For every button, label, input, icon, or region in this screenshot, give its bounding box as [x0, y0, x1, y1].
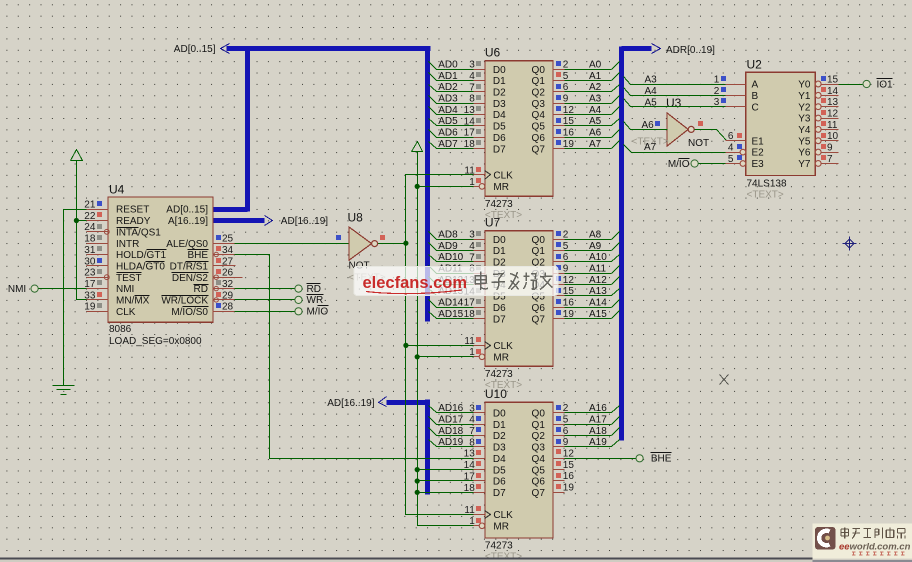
wire U10 Q3 (pin 9) to A19	[553, 437, 620, 448]
svg-text:34: 34	[222, 245, 234, 256]
wire U6 Q1 (pin 5) to A1	[553, 71, 620, 82]
wire AD6 to U6 D6 (pin 17)	[429, 128, 485, 139]
decoder U2 74LS138	[740, 57, 815, 200]
svg-text:AD1: AD1	[438, 71, 458, 82]
svg-text:1: 1	[469, 347, 475, 358]
svg-text:A11: A11	[589, 263, 606, 274]
junction MR net at U10 D6	[415, 478, 420, 483]
svg-text:Q7: Q7	[532, 488, 546, 499]
svg-text:17: 17	[464, 128, 476, 139]
processor U4 8086	[108, 183, 213, 347]
bus A[16..19] stub from U4 with right arrow	[213, 216, 273, 226]
svg-text:33: 33	[84, 290, 96, 301]
wire WR to terminal	[213, 299, 295, 301]
wire AD17 to U10 D1 (pin 4)	[429, 414, 485, 425]
power symbol VCC (left, feeds READY and MN/MX)	[71, 150, 83, 161]
wire U7 Q0 (pin 2) to A8	[553, 229, 620, 240]
svg-text:Y7: Y7	[798, 159, 811, 170]
junction MR net at U6 MR	[415, 184, 420, 189]
svg-text:7: 7	[469, 426, 475, 437]
svg-text:18: 18	[464, 139, 476, 150]
svg-text:Q1: Q1	[532, 420, 546, 431]
svg-text:Y4: Y4	[798, 125, 811, 136]
svg-text:A8: A8	[589, 229, 602, 240]
svg-text:D4: D4	[493, 454, 506, 465]
svg-text:Q4: Q4	[532, 110, 546, 121]
svg-text:E2: E2	[752, 148, 765, 159]
wire AD3 to U6 D3 (pin 8)	[429, 93, 485, 104]
svg-text:DEN/S2: DEN/S2	[172, 273, 209, 284]
svg-text:7: 7	[469, 82, 475, 93]
wire U10 Q2 (pin 6) to A18	[553, 426, 620, 437]
svg-text:6: 6	[563, 82, 569, 93]
svg-text:14: 14	[464, 116, 476, 127]
svg-text:U2: U2	[747, 57, 763, 71]
svg-text:CLK: CLK	[493, 510, 513, 521]
svg-text:16: 16	[563, 298, 575, 309]
svg-text:A16: A16	[589, 403, 607, 414]
bus AD[0..15] (top horizontal + vertical drops)	[213, 44, 431, 322]
svg-text:19: 19	[84, 302, 96, 313]
wire U7 Q7 (pin 19) to A15	[553, 309, 620, 320]
svg-text:Q2: Q2	[532, 88, 546, 99]
svg-text:Y6: Y6	[798, 148, 811, 159]
wire AD0 to U6 D0 (pin 3)	[429, 59, 485, 70]
svg-text:7: 7	[827, 154, 833, 165]
svg-text:IO1: IO1	[877, 79, 894, 90]
svg-text:A14: A14	[589, 298, 607, 309]
svg-text:BHE: BHE	[651, 454, 672, 465]
svg-text:30: 30	[84, 256, 96, 267]
wire U7 Q4 (pin 12) to A12	[553, 275, 620, 286]
svg-text:U6: U6	[485, 46, 501, 60]
svg-text:CLK: CLK	[116, 307, 136, 318]
svg-text:A5: A5	[589, 116, 602, 127]
svg-text:2: 2	[563, 59, 569, 70]
svg-text:12: 12	[563, 105, 575, 116]
svg-text:AD9: AD9	[438, 241, 458, 252]
svg-text:INTA/QS1: INTA/QS1	[116, 227, 161, 238]
wire U10 Q4 (pin 12) to BHE terminal	[553, 449, 637, 460]
svg-text:ALE/QS0: ALE/QS0	[166, 239, 208, 250]
svg-text:A17: A17	[589, 414, 607, 425]
svg-text:74273: 74273	[485, 369, 513, 380]
svg-text:D5: D5	[493, 465, 506, 476]
svg-text:D7: D7	[493, 488, 506, 499]
wire U2 Y0 to IO1 terminal	[839, 84, 863, 86]
svg-text:WR/LOCK: WR/LOCK	[161, 296, 208, 307]
svg-text:3: 3	[469, 403, 475, 414]
svg-text:Q1: Q1	[532, 246, 546, 257]
svg-text:A9: A9	[589, 241, 602, 252]
wire AD19 to U10 D3 (pin 8)	[429, 437, 485, 448]
svg-text:5: 5	[563, 71, 569, 82]
svg-text:D3: D3	[493, 99, 506, 110]
svg-text:D6: D6	[493, 303, 506, 314]
latch U10 74273	[464, 387, 553, 562]
svg-text:Q7: Q7	[532, 314, 546, 325]
U2 E1,E2,E3 pin numbers	[726, 131, 746, 165]
svg-text:MR: MR	[493, 352, 509, 363]
terminal BHE	[636, 453, 672, 465]
wire AD16 to U10 D0 (pin 3)	[429, 403, 485, 414]
junction CLK net at U7 CLK	[403, 343, 408, 348]
bus AD[16..19] (lower, feeding U10)	[379, 397, 428, 495]
wire AD18 to U10 D2 (pin 7)	[429, 426, 485, 437]
bottom window edge	[0, 557, 912, 562]
wire AD11 to U7 D3 (pin 8)	[429, 263, 485, 274]
svg-text:D4: D4	[493, 110, 506, 121]
wire ALE/QS0 to U8 input	[213, 243, 350, 245]
svg-text:17: 17	[464, 471, 476, 482]
svg-text:READY: READY	[116, 216, 151, 227]
svg-text:31: 31	[84, 245, 96, 256]
svg-text:CLK: CLK	[493, 171, 513, 182]
svg-text:Y2: Y2	[798, 102, 811, 113]
svg-text:AD19: AD19	[438, 437, 463, 448]
power symbol VCC (MR net)	[412, 142, 423, 152]
svg-text:A[16..19]: A[16..19]	[168, 216, 208, 227]
svg-text:CLK: CLK	[493, 341, 513, 352]
wire CLK net vertical (U6/U7/U10 CLK)	[406, 175, 485, 515]
terminal RD	[295, 284, 321, 295]
terminal WR	[295, 295, 324, 307]
svg-text:A18: A18	[589, 426, 607, 437]
svg-text:AD14: AD14	[438, 298, 463, 309]
svg-text:Y5: Y5	[798, 136, 811, 147]
svg-text:Q2: Q2	[532, 431, 546, 442]
watermark elecfans.com	[354, 266, 558, 295]
U4 right pins with numbers	[213, 234, 243, 313]
svg-text:13: 13	[827, 97, 839, 108]
U2 Y0-Y7 output pins	[815, 74, 838, 166]
svg-text:<TEXT>: <TEXT>	[747, 190, 784, 201]
svg-text:Y3: Y3	[798, 114, 811, 125]
wire U6 Q6 (pin 16) to A6	[553, 128, 620, 139]
svg-text:3: 3	[714, 97, 720, 108]
svg-text:D6: D6	[493, 477, 506, 488]
svg-text:4: 4	[728, 143, 734, 154]
svg-text:15: 15	[563, 460, 575, 471]
svg-text:E1: E1	[752, 136, 765, 147]
svg-text:6: 6	[728, 131, 734, 142]
wire A7 from bus to U2 E2	[624, 142, 741, 153]
svg-text:A19: A19	[589, 437, 607, 448]
svg-text:12: 12	[827, 108, 839, 119]
svg-text:A7: A7	[644, 142, 657, 153]
wire U6 Q2 (pin 6) to A2	[553, 82, 620, 93]
svg-text:MR: MR	[493, 521, 509, 532]
svg-text:Q0: Q0	[532, 235, 546, 246]
svg-text:19: 19	[563, 483, 575, 494]
svg-text:A6: A6	[589, 128, 602, 139]
svg-text:Q7: Q7	[532, 144, 546, 155]
inverter U8 (NOT) on ALE	[336, 211, 386, 284]
svg-text:Q6: Q6	[532, 133, 546, 144]
svg-text:RESET: RESET	[116, 205, 149, 216]
svg-text:Y0: Y0	[798, 80, 811, 91]
svg-text:M/IO: M/IO	[668, 159, 690, 170]
svg-text:AD[16..19]: AD[16..19]	[281, 216, 328, 227]
svg-text:B: B	[752, 91, 759, 102]
svg-text:D2: D2	[493, 431, 506, 442]
wire A6 from bus to U3 input	[624, 120, 668, 131]
svg-text:MN/MX: MN/MX	[116, 296, 150, 307]
svg-text:MR: MR	[493, 182, 509, 193]
svg-text:1: 1	[469, 516, 475, 527]
svg-text:NOT: NOT	[688, 138, 709, 149]
wire U3 output to U2 E1	[695, 121, 746, 141]
bus ADR[0..19] (right vertical with top arrow)	[622, 44, 661, 441]
svg-text:Q3: Q3	[532, 443, 546, 454]
svg-text:8086: 8086	[109, 324, 132, 335]
svg-text:A15: A15	[589, 309, 607, 320]
U10 D4-D7 pins (13,14,17,18)	[464, 449, 485, 494]
marker X (no-connect cross)	[720, 375, 729, 385]
svg-text:17: 17	[84, 279, 96, 290]
svg-text:D7: D7	[493, 314, 506, 325]
junction CLK net at U8 output	[403, 241, 408, 246]
svg-text:TEST: TEST	[116, 273, 142, 284]
svg-text:A: A	[752, 80, 759, 91]
svg-text:3: 3	[469, 230, 475, 241]
wire U6 Q3 (pin 9) to A3	[553, 93, 620, 104]
svg-text:D3: D3	[493, 443, 506, 454]
svg-text:Y1: Y1	[798, 91, 811, 102]
svg-text:U10: U10	[485, 387, 507, 401]
svg-text:5: 5	[563, 414, 569, 425]
svg-text:INTR: INTR	[116, 239, 139, 250]
wire M/IO to terminal	[213, 311, 295, 313]
svg-text:9: 9	[827, 143, 833, 154]
svg-text:A2: A2	[589, 82, 602, 93]
svg-text:15: 15	[563, 116, 575, 127]
svg-text:6: 6	[563, 426, 569, 437]
svg-text:Q1: Q1	[532, 76, 546, 87]
svg-text:16: 16	[563, 128, 575, 139]
svg-text:AD4: AD4	[438, 105, 458, 116]
svg-text:10: 10	[827, 131, 839, 142]
svg-text:9: 9	[563, 263, 569, 274]
wire U6 Q5 (pin 15) to A5	[553, 116, 620, 127]
svg-text:WR: WR	[307, 295, 324, 306]
svg-text:74273: 74273	[485, 199, 513, 210]
junction MR net at U7 MR	[415, 354, 420, 359]
svg-text:.com.cn: .com.cn	[875, 542, 911, 553]
wire RESET to ground net	[64, 210, 87, 386]
svg-text:11: 11	[464, 336, 475, 347]
svg-text:LOAD_SEG=0x0800: LOAD_SEG=0x0800	[109, 336, 202, 347]
svg-text:15: 15	[827, 74, 839, 85]
svg-text:D5: D5	[493, 122, 506, 133]
svg-text:16: 16	[563, 471, 575, 482]
svg-text:A4: A4	[589, 105, 602, 116]
svg-text:14: 14	[464, 460, 476, 471]
svg-text:8: 8	[469, 94, 475, 105]
svg-text:world: world	[850, 542, 876, 553]
terminal IO1	[863, 79, 893, 91]
svg-text:A12: A12	[589, 275, 607, 286]
svg-text:NMI: NMI	[116, 284, 134, 295]
wire U7 Q2 (pin 6) to A10	[553, 252, 620, 263]
wire AD5 to U6 D5 (pin 14)	[429, 116, 485, 127]
junction READY/VCC	[74, 218, 79, 223]
wire AD7 to U6 D7 (pin 18)	[429, 139, 485, 150]
svg-text:25: 25	[222, 234, 234, 245]
svg-text:BHE: BHE	[187, 250, 208, 261]
svg-text:AD5: AD5	[438, 116, 458, 127]
U4 left pins with numbers	[84, 200, 109, 313]
svg-text:AD[0..15]: AD[0..15]	[174, 44, 216, 55]
terminal M/IO	[295, 306, 329, 318]
svg-text:12: 12	[563, 275, 575, 286]
svg-text:D0: D0	[493, 65, 506, 76]
svg-text:13: 13	[464, 105, 476, 116]
svg-text:11: 11	[827, 120, 838, 131]
svg-text:26: 26	[222, 268, 234, 279]
U10 Q5-Q7 unconnected pins (15,16,19)	[553, 460, 575, 494]
svg-text:AD[16..19]: AD[16..19]	[327, 398, 374, 409]
wire U8 output to CLK net	[378, 243, 406, 245]
svg-text:74LS138: 74LS138	[747, 178, 787, 189]
svg-text:U7: U7	[485, 216, 501, 230]
svg-text:1: 1	[714, 74, 720, 85]
wire U10 Q0 (pin 2) to A16	[553, 403, 620, 414]
svg-text:11: 11	[464, 505, 475, 516]
wires A3,A4,A5 from bus to U2 A,B,C (pins 1,2,3)	[624, 74, 746, 108]
wire U6 Q4 (pin 12) to A4	[553, 105, 620, 116]
svg-text:M/IO/S0: M/IO/S0	[171, 307, 208, 318]
svg-text:A5: A5	[645, 97, 658, 108]
wire AD8 to U7 D0 (pin 3)	[429, 229, 485, 240]
svg-text:5: 5	[563, 241, 569, 252]
wire AD13 to U7 D5 (pin 14)	[429, 286, 485, 297]
svg-text:32: 32	[222, 279, 234, 290]
wire AD4 to U6 D4 (pin 13)	[429, 105, 485, 116]
svg-text:ADR[0..19]: ADR[0..19]	[666, 45, 715, 56]
svg-text:29: 29	[222, 290, 234, 301]
marker origin crosshair (blue)	[843, 237, 857, 251]
svg-text:HLDA/GT0: HLDA/GT0	[116, 262, 165, 273]
svg-text:D2: D2	[493, 88, 506, 99]
svg-text:A6: A6	[642, 120, 655, 131]
terminal M/IO (to U2 E3)	[668, 159, 741, 170]
wire AD10 to U7 D2 (pin 7)	[429, 252, 485, 263]
svg-text:18: 18	[464, 309, 476, 320]
svg-text:2: 2	[714, 86, 720, 97]
svg-text:Q6: Q6	[532, 303, 546, 314]
wire VCC to READY / MN/MX	[77, 161, 87, 300]
svg-text:RD: RD	[194, 284, 208, 295]
junction MR net at U10 D7	[415, 490, 420, 495]
svg-text:AD7: AD7	[438, 139, 458, 150]
wire AD12 to U7 D4 (pin 13)	[429, 275, 485, 286]
svg-text:A1: A1	[589, 71, 602, 82]
svg-text:D1: D1	[493, 246, 506, 257]
svg-text:14: 14	[827, 86, 839, 97]
svg-text:A3: A3	[589, 93, 602, 104]
svg-text:3: 3	[469, 60, 475, 71]
ground	[53, 386, 75, 395]
svg-text:13: 13	[464, 449, 476, 460]
svg-text:21: 21	[84, 200, 96, 211]
svg-text:23: 23	[84, 268, 96, 279]
inverter U3 (NOT) on A6	[632, 96, 710, 149]
wire U10 Q1 (pin 5) to A17	[553, 414, 620, 425]
svg-text:Q5: Q5	[532, 122, 546, 133]
svg-text:Q6: Q6	[532, 477, 546, 488]
svg-text:18: 18	[84, 234, 96, 245]
svg-text:U4: U4	[109, 183, 125, 197]
svg-text:NMI: NMI	[8, 284, 26, 295]
svg-text:Q5: Q5	[532, 465, 546, 476]
svg-text:Q3: Q3	[532, 99, 546, 110]
svg-text:12: 12	[563, 449, 575, 460]
svg-text:D7: D7	[493, 144, 506, 155]
svg-text:9: 9	[563, 437, 569, 448]
svg-text:AD18: AD18	[438, 426, 463, 437]
svg-text:9: 9	[563, 93, 569, 104]
wire U6 Q7 (pin 19) to A7	[553, 139, 620, 150]
svg-text:Q0: Q0	[532, 409, 546, 420]
svg-text:A10: A10	[589, 252, 607, 263]
svg-text:U3: U3	[666, 96, 682, 110]
wire AD2 to U6 D2 (pin 7)	[429, 82, 485, 93]
svg-text:AD[0..15]: AD[0..15]	[166, 205, 208, 216]
svg-text:D1: D1	[493, 76, 506, 87]
svg-text:M/IO: M/IO	[307, 307, 329, 318]
svg-text:elecfans.com: elecfans.com	[363, 274, 468, 292]
svg-text:4: 4	[469, 241, 475, 252]
wire U6 Q0 (pin 2) to A0	[553, 59, 620, 70]
svg-text:11: 11	[464, 165, 475, 176]
latch U7 74273	[464, 216, 553, 391]
svg-text:1: 1	[469, 177, 475, 188]
svg-text:AD2: AD2	[438, 82, 458, 93]
svg-text:U8: U8	[348, 211, 364, 225]
svg-text:D0: D0	[493, 235, 506, 246]
svg-text:AD17: AD17	[438, 414, 463, 425]
wire BHE from U4 pin 34 to U10 D4	[217, 255, 474, 459]
svg-text:E3: E3	[752, 159, 765, 170]
wire RD to terminal	[213, 288, 295, 290]
wire U7 Q5 (pin 15) to A13	[553, 286, 620, 297]
wire AD1 to U6 D1 (pin 4)	[429, 71, 485, 82]
svg-text:5: 5	[728, 154, 734, 165]
svg-text:19: 19	[563, 309, 575, 320]
terminal NMI	[8, 284, 87, 295]
wire AD15 to U7 D7 (pin 18)	[429, 309, 485, 320]
watermark eeworld.com.cn	[813, 524, 912, 559]
svg-text:8: 8	[469, 437, 475, 448]
svg-text:AD3: AD3	[438, 93, 458, 104]
latch U6 74273	[464, 46, 553, 221]
svg-text:HOLD/GT1: HOLD/GT1	[116, 250, 166, 261]
svg-text:2: 2	[563, 403, 569, 414]
wire AD14 to U7 D6 (pin 17)	[429, 298, 485, 309]
svg-text:AD15: AD15	[438, 309, 463, 320]
svg-text:A13: A13	[589, 286, 607, 297]
svg-text:17: 17	[464, 298, 476, 309]
svg-text:AD0: AD0	[438, 59, 458, 70]
svg-text:AD16: AD16	[438, 403, 463, 414]
svg-text:A3: A3	[645, 75, 658, 86]
wire U7 Q6 (pin 16) to A14	[553, 298, 620, 309]
svg-text:AD10: AD10	[438, 252, 463, 263]
junction MR net at U10 D5	[415, 467, 420, 472]
svg-text:18: 18	[464, 483, 476, 494]
svg-text:24: 24	[84, 222, 96, 233]
